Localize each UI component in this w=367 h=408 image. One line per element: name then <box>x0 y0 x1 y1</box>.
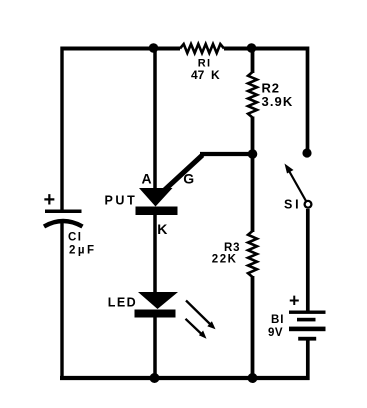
wire left rail lower <box>60 221 63 380</box>
label 2uF value <box>69 245 97 257</box>
label B1 <box>271 314 285 326</box>
transistor PUT Q1 triangle <box>139 188 173 207</box>
wire middle rail anode segment <box>153 47 157 191</box>
svg-text:G: G <box>183 171 194 187</box>
svg-text:22K: 22K <box>212 254 238 266</box>
junction dot bottom right <box>248 373 258 383</box>
svg-text:3.9K: 3.9K <box>262 94 294 109</box>
transistor PUT cathode bar <box>136 207 178 216</box>
label 9V value <box>268 327 283 339</box>
wire gate diagonal <box>164 155 203 191</box>
label C1 <box>68 232 83 244</box>
wire right rail top <box>306 47 310 152</box>
label LED <box>108 296 137 310</box>
svg-text:K: K <box>157 221 167 237</box>
junction dot bottom middle <box>150 373 160 383</box>
junction dot top middle <box>149 43 159 53</box>
battery B1 plate 2 short <box>297 318 316 322</box>
label 3.9K value <box>262 94 294 109</box>
svg-text:LED: LED <box>108 296 137 310</box>
svg-text:R3: R3 <box>224 242 240 254</box>
junction dot top right <box>247 43 257 53</box>
svg-text:PUT: PUT <box>105 194 138 208</box>
battery B1 plate 1 long <box>289 311 326 314</box>
junction dot gate node <box>248 149 258 159</box>
wire R2 bottom to R3 top lead <box>251 117 255 233</box>
wire battery to bottom rail <box>306 339 310 380</box>
svg-text:2µF: 2µF <box>69 245 97 257</box>
switch S1 pivot circle <box>305 201 312 208</box>
label C1 plus sign <box>44 189 56 211</box>
svg-text:9V: 9V <box>268 327 283 339</box>
svg-text:+: + <box>289 290 300 310</box>
label R3 <box>224 242 240 254</box>
LED light arrow 1 <box>186 301 216 330</box>
label B1 plus sign <box>289 290 300 310</box>
label 47K value <box>191 68 220 82</box>
svg-text:CI: CI <box>68 232 83 244</box>
wire middle rail below LED <box>153 316 157 380</box>
wire switch to battery <box>306 209 310 312</box>
wire R2 top lead <box>251 47 255 74</box>
battery B1 plate 4 short <box>298 337 316 341</box>
label G gate <box>183 171 194 187</box>
switch S1 lever arrow <box>285 164 307 202</box>
svg-text:47: 47 <box>191 68 205 82</box>
label 22K value <box>212 254 238 266</box>
label K cathode <box>157 221 167 237</box>
svg-text:A: A <box>142 171 152 187</box>
resistor R1 <box>180 44 224 53</box>
wire middle rail cathode-to-LED segment <box>153 213 157 293</box>
label R1 <box>198 58 212 70</box>
wire top rail <box>62 47 308 51</box>
label PUT <box>105 194 138 208</box>
svg-text:K: K <box>211 68 220 82</box>
wire gate horizontal <box>200 152 253 156</box>
svg-text:BI: BI <box>271 314 285 326</box>
wire bottom rail <box>60 376 310 380</box>
LED light arrow 2 <box>186 319 207 339</box>
wire left rail upper <box>60 47 63 212</box>
wire R3 bottom lead <box>251 276 255 380</box>
label A anode <box>142 171 152 187</box>
LED cathode bar <box>135 310 176 318</box>
label S1 <box>284 198 301 212</box>
svg-text:SI: SI <box>284 198 301 212</box>
capacitor C1 <box>44 210 83 227</box>
resistor R2 <box>248 72 257 118</box>
battery B1 plate 3 long <box>289 327 326 332</box>
resistor R3 <box>248 231 257 277</box>
switch S1 top terminal dot <box>302 148 311 157</box>
label R2 <box>262 81 280 96</box>
LED D1 triangle <box>138 292 178 309</box>
svg-text:+: + <box>44 189 56 211</box>
